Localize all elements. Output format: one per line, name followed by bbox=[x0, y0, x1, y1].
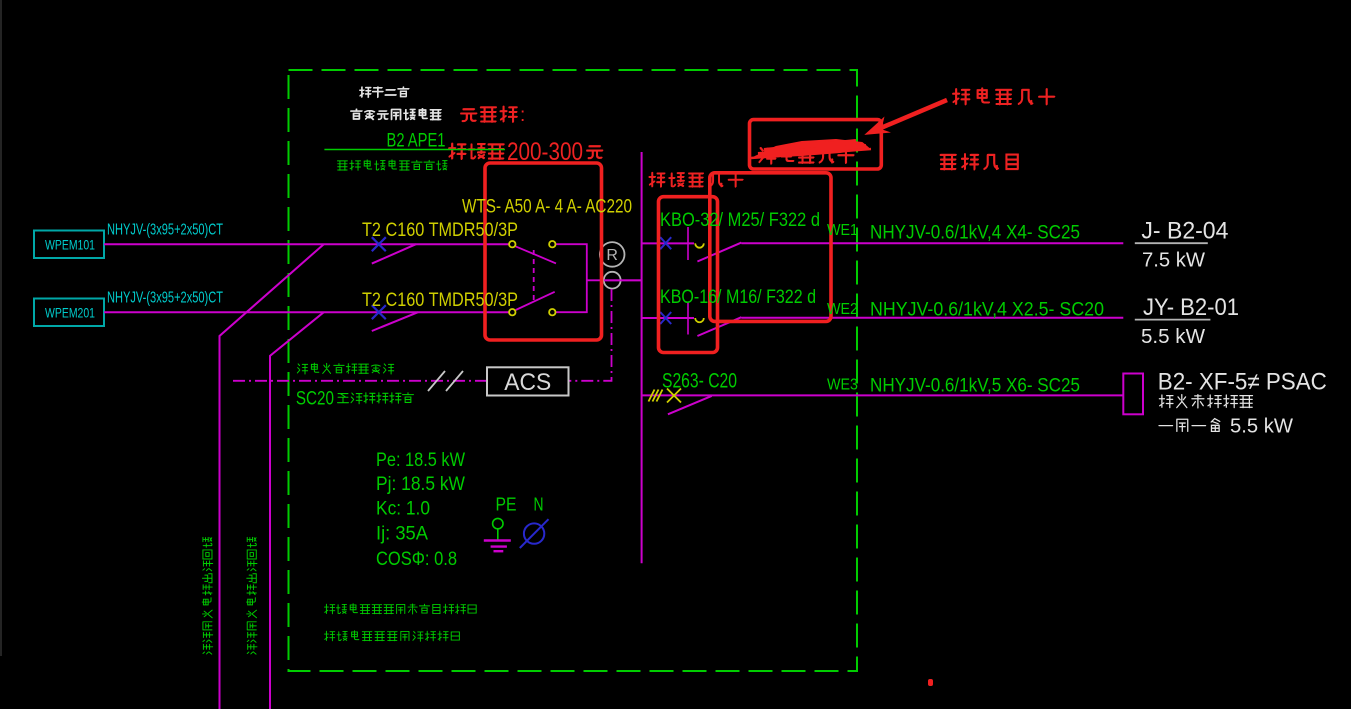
svg-text:N: N bbox=[534, 495, 544, 515]
svg-text:WE3: WE3 bbox=[827, 377, 858, 394]
svg-text::: : bbox=[520, 105, 525, 126]
svg-text:NHYJV-0.6/1kV,4 X4- SC25: NHYJV-0.6/1kV,4 X4- SC25 bbox=[870, 223, 1080, 244]
svg-text:NHYJV-0.6/1kV,5 X6- SC25: NHYJV-0.6/1kV,5 X6- SC25 bbox=[870, 376, 1080, 397]
svg-text:WPEM201: WPEM201 bbox=[45, 305, 95, 321]
svg-text:5.5 kW: 5.5 kW bbox=[1230, 416, 1293, 438]
svg-text:J- B2-04: J- B2-04 bbox=[1141, 218, 1228, 245]
svg-text:5.5 kW: 5.5 kW bbox=[1141, 326, 1205, 348]
svg-text:JY- B2-01: JY- B2-01 bbox=[1143, 294, 1239, 321]
svg-text:KBO-32/ M25/ F322 d: KBO-32/ M25/ F322 d bbox=[660, 209, 820, 231]
svg-text:Ij: 35A: Ij: 35A bbox=[376, 524, 428, 545]
svg-text:200-300: 200-300 bbox=[507, 138, 583, 166]
svg-text:Kc: 1.0: Kc: 1.0 bbox=[376, 499, 430, 520]
svg-text:WTS- A50 A- 4 A- AC220: WTS- A50 A- 4 A- AC220 bbox=[462, 196, 632, 218]
svg-text:S263- C20: S263- C20 bbox=[662, 370, 737, 393]
svg-text:WPEM101: WPEM101 bbox=[45, 237, 95, 253]
svg-text:B2- XF-5≠ PSAC: B2- XF-5≠ PSAC bbox=[1158, 369, 1327, 396]
svg-text:NHYJV-(3x95+2x50)CT: NHYJV-(3x95+2x50)CT bbox=[107, 222, 223, 239]
svg-text:NHYJV-(3x95+2x50)CT: NHYJV-(3x95+2x50)CT bbox=[107, 290, 223, 307]
svg-text:B2 APE1: B2 APE1 bbox=[387, 130, 446, 152]
svg-text:COSΦ: 0.8: COSΦ: 0.8 bbox=[376, 549, 457, 570]
svg-text:T2 C160 TMDR50/3P: T2 C160 TMDR50/3P bbox=[362, 289, 518, 311]
svg-text:SC20: SC20 bbox=[296, 389, 334, 410]
svg-text:ACS: ACS bbox=[504, 369, 551, 396]
svg-text:Pe: 18.5 kW: Pe: 18.5 kW bbox=[376, 450, 465, 471]
svg-text:WE1: WE1 bbox=[827, 222, 858, 239]
svg-text:Pj: 18.5 kW: Pj: 18.5 kW bbox=[376, 474, 465, 495]
svg-text:7.5 kW: 7.5 kW bbox=[1142, 250, 1205, 272]
svg-text:R: R bbox=[606, 247, 618, 264]
svg-text:T2 C160 TMDR50/3P: T2 C160 TMDR50/3P bbox=[362, 219, 518, 241]
svg-text:WE2: WE2 bbox=[827, 301, 858, 318]
svg-text:PE: PE bbox=[496, 495, 517, 515]
svg-text:KBO-16/ M16/ F322 d: KBO-16/ M16/ F322 d bbox=[660, 286, 816, 308]
svg-text:NHYJV-0.6/1kV,4 X2.5- SC20: NHYJV-0.6/1kV,4 X2.5- SC20 bbox=[870, 300, 1104, 321]
